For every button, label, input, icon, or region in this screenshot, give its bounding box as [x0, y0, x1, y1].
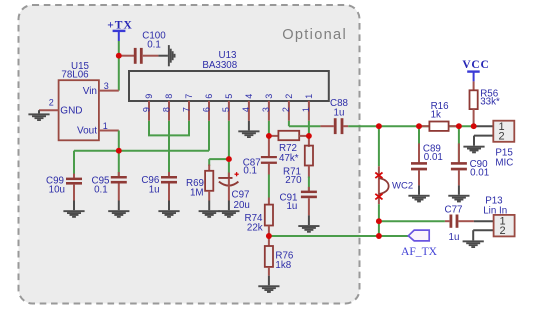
wire pin9 to pin7 — [148, 121, 190, 136]
junction R56 — [471, 123, 477, 129]
op-amp U15 78L06 regulator — [39, 61, 119, 140]
wire Vout to bus — [118, 131, 120, 151]
svg-text:0.1: 0.1 — [243, 166, 257, 177]
capacitor C87 — [243, 156, 277, 177]
wire junction to C87 — [268, 136, 270, 156]
svg-text:2: 2 — [284, 94, 294, 99]
svg-text:5: 5 — [221, 107, 231, 112]
svg-text:Vin: Vin — [83, 86, 97, 97]
ground (R76) — [258, 276, 279, 293]
supply VCC — [462, 59, 489, 81]
svg-text:22k: 22k — [247, 222, 263, 233]
svg-text:C77: C77 — [445, 205, 463, 216]
svg-text:6: 6 — [201, 107, 211, 112]
wire WC2 bottom segment — [378, 204, 380, 221]
wire WC2 top segment — [378, 126, 380, 166]
svg-text:BA3308: BA3308 — [202, 60, 237, 71]
ground (C97) — [218, 201, 239, 218]
svg-text:AF_TX: AF_TX — [401, 245, 438, 258]
connector P13 Lin In — [473, 195, 514, 236]
ground (U13 pin 4) — [238, 121, 259, 138]
svg-text:1k: 1k — [431, 110, 441, 121]
ground (P15 pin 2) — [463, 136, 484, 154]
svg-text:20u: 20u — [234, 200, 250, 211]
U13 pin 5 — [221, 94, 234, 121]
junction pin1/R72/R71 — [306, 133, 312, 139]
jumper WC2 — [375, 166, 413, 204]
svg-text:1u: 1u — [286, 201, 297, 212]
svg-text:270: 270 — [285, 175, 302, 186]
svg-text:4: 4 — [244, 94, 254, 99]
capacitor C91 — [280, 187, 317, 216]
junction pin5/R69/C97 — [226, 156, 232, 162]
resistor R72 — [269, 131, 309, 164]
svg-text:2: 2 — [49, 98, 54, 108]
junction R74/R76/AF_TX — [266, 233, 272, 239]
U13 pin 7 — [181, 94, 194, 121]
svg-text:1M: 1M — [190, 187, 204, 198]
wire pin 8 down — [168, 121, 170, 176]
svg-text:7: 7 — [181, 107, 191, 112]
wire C87 to R74 — [268, 175, 270, 198]
svg-text:3: 3 — [261, 107, 271, 112]
capacitor C95 — [92, 151, 127, 201]
U13 pin 2 — [281, 94, 294, 121]
ground (C89) — [408, 185, 429, 202]
wire WC2 bottom to AF_TX wire — [378, 221, 380, 236]
svg-text:VCC: VCC — [462, 59, 489, 71]
ground (U15 pin2) — [28, 110, 49, 121]
U13 pin 9 — [141, 94, 154, 121]
svg-text:1u: 1u — [149, 185, 160, 196]
svg-text:0.01: 0.01 — [424, 152, 443, 163]
wire AF_TX net — [269, 235, 409, 237]
svg-text:1u: 1u — [334, 107, 345, 118]
svg-text:0.1: 0.1 — [94, 185, 108, 196]
wire pin 2 to C88 — [289, 121, 321, 126]
wire junction to R69 — [209, 159, 229, 166]
svg-text:6: 6 — [204, 94, 214, 99]
svg-text:MIC: MIC — [495, 157, 513, 168]
resistor R71 — [283, 136, 313, 186]
capacitor C96 — [141, 172, 177, 201]
svg-text:1: 1 — [304, 94, 314, 99]
net label AF_TX — [401, 230, 438, 258]
U13 pin 3 — [261, 94, 274, 121]
resistor R69 — [186, 165, 213, 201]
svg-text:9: 9 — [144, 94, 154, 99]
svg-text:47k*: 47k* — [279, 153, 299, 164]
svg-text:0.01: 0.01 — [470, 168, 489, 179]
ground (C91) — [298, 215, 319, 232]
junction C89 — [416, 123, 422, 129]
capacitor C100 — [122, 31, 167, 64]
svg-text:Optional: Optional — [282, 27, 347, 43]
svg-text:2: 2 — [281, 107, 291, 112]
wire 6V bus — [74, 150, 209, 152]
junction Vout/bus — [116, 148, 122, 154]
optional region box — [19, 5, 360, 304]
junction +TX/C100 — [116, 53, 122, 59]
svg-text:78L06: 78L06 — [61, 70, 89, 81]
wire pin 1 down — [308, 121, 310, 136]
junction WC2 top — [376, 123, 382, 129]
ground (C99) — [63, 201, 84, 218]
svg-text:9: 9 — [141, 107, 151, 112]
svg-text:1: 1 — [301, 107, 311, 112]
ground (C100, rotated) — [158, 45, 175, 66]
svg-text:2: 2 — [499, 131, 505, 143]
svg-text:5: 5 — [224, 94, 234, 99]
resistor R16 — [421, 101, 457, 131]
U13 pin 6 — [201, 94, 214, 121]
U13 pin 8 — [161, 94, 174, 121]
resistor R76 — [265, 236, 294, 276]
capacitor C99 — [46, 151, 82, 201]
svg-text:8: 8 — [161, 107, 171, 112]
resistor R56 — [470, 81, 500, 126]
ground (R69) — [199, 201, 220, 218]
svg-text:Vout: Vout — [77, 126, 97, 137]
ground (C96) — [158, 201, 179, 218]
capacitor C90 — [451, 126, 489, 185]
capacitor C88 — [320, 98, 348, 134]
ground (P13 pin 2) — [463, 230, 484, 248]
svg-text:4: 4 — [241, 107, 251, 112]
svg-text:7: 7 — [184, 94, 194, 99]
wire pin 5 down — [228, 121, 230, 159]
wire R71 to C91 — [308, 177, 310, 191]
connector P15 MIC — [474, 121, 514, 169]
junction C90 — [456, 123, 462, 129]
svg-text:8: 8 — [164, 94, 174, 99]
svg-text:1k8: 1k8 — [275, 260, 291, 271]
junction WC2 bottom/AF_TX — [376, 233, 382, 239]
op-amp U13 BA3308 — [129, 50, 329, 101]
U13 pin 1 — [301, 94, 314, 121]
supply +TX — [107, 20, 133, 41]
ground (C95) — [108, 201, 129, 218]
capacitor C97 (polarized) — [218, 162, 250, 211]
junction pin3/R72 — [266, 133, 272, 139]
svg-text:3: 3 — [104, 81, 109, 91]
wire pin 3 down — [268, 121, 270, 136]
wire bus to pin 6 — [208, 121, 210, 151]
wire +TX vertical — [118, 41, 120, 91]
junction Lin In net — [376, 218, 382, 224]
svg-text:3: 3 — [264, 94, 274, 99]
svg-text:10u: 10u — [49, 185, 65, 196]
capacitor C77 — [445, 205, 474, 243]
svg-text:WC2: WC2 — [392, 180, 413, 191]
svg-text:1u: 1u — [449, 232, 460, 243]
svg-text:GND: GND — [60, 106, 82, 117]
wire MIC bias net — [348, 125, 475, 127]
wire Lin In net — [379, 220, 445, 222]
ground (C90) — [448, 185, 469, 202]
capacitor C89 — [411, 126, 443, 185]
U13 pin 4 — [241, 94, 254, 121]
svg-text:2: 2 — [500, 225, 506, 237]
svg-text:0.1: 0.1 — [147, 39, 161, 50]
resistor R74 — [245, 198, 273, 237]
svg-text:33k*: 33k* — [480, 96, 500, 107]
